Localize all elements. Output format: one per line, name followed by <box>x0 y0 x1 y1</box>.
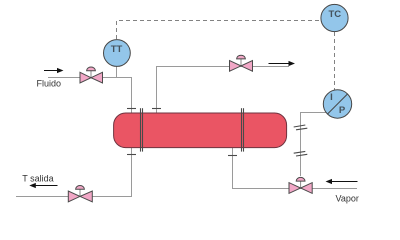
pneumatic slash pair lower <box>294 151 308 156</box>
svg-text:TC: TC <box>328 9 341 20</box>
flange tick nozzle bottom-right <box>228 155 237 157</box>
control valve V1 fluido <box>80 67 103 83</box>
svg-text:TT: TT <box>111 44 123 55</box>
wire pneumatic signal I/P to valve <box>301 113 328 177</box>
control valve V3 T salida <box>68 186 92 202</box>
svg-text:I: I <box>330 92 333 103</box>
wire T salida outlet pipe <box>16 148 132 197</box>
instrument TC <box>321 4 348 31</box>
svg-text:P: P <box>339 105 346 116</box>
svg-text:Fluido: Fluido <box>37 79 62 89</box>
flow arrow top outlet <box>269 61 296 66</box>
svg-text:Vapor: Vapor <box>336 193 359 203</box>
instrument I/P converter <box>323 90 351 118</box>
flange tick nozzle bottom-left <box>127 154 136 156</box>
control valve V4 vapor <box>289 177 312 193</box>
signal line dashed TT to TC <box>117 21 321 40</box>
heat exchanger E1 <box>114 113 287 148</box>
wire TT stem <box>116 66 118 78</box>
flow arrow fluido <box>44 68 64 73</box>
signal line dashed TC to I/P <box>334 32 336 90</box>
wire vapor inlet pipe <box>233 148 358 189</box>
pneumatic slash pair upper <box>294 125 308 130</box>
tube sheet right <box>242 108 244 151</box>
flow arrow vapor <box>326 179 358 184</box>
wire fluido inlet pipe <box>48 78 132 114</box>
flange tick nozzle top-left <box>127 108 136 110</box>
flange tick nozzle top-mid <box>152 108 161 110</box>
svg-text:T salida: T salida <box>22 174 53 184</box>
tube sheet left <box>141 108 143 151</box>
control valve V2 top outlet <box>230 55 253 71</box>
instrument TT <box>104 40 131 67</box>
wire top outlet pipe <box>157 67 290 114</box>
flow arrow T salida <box>29 183 57 188</box>
